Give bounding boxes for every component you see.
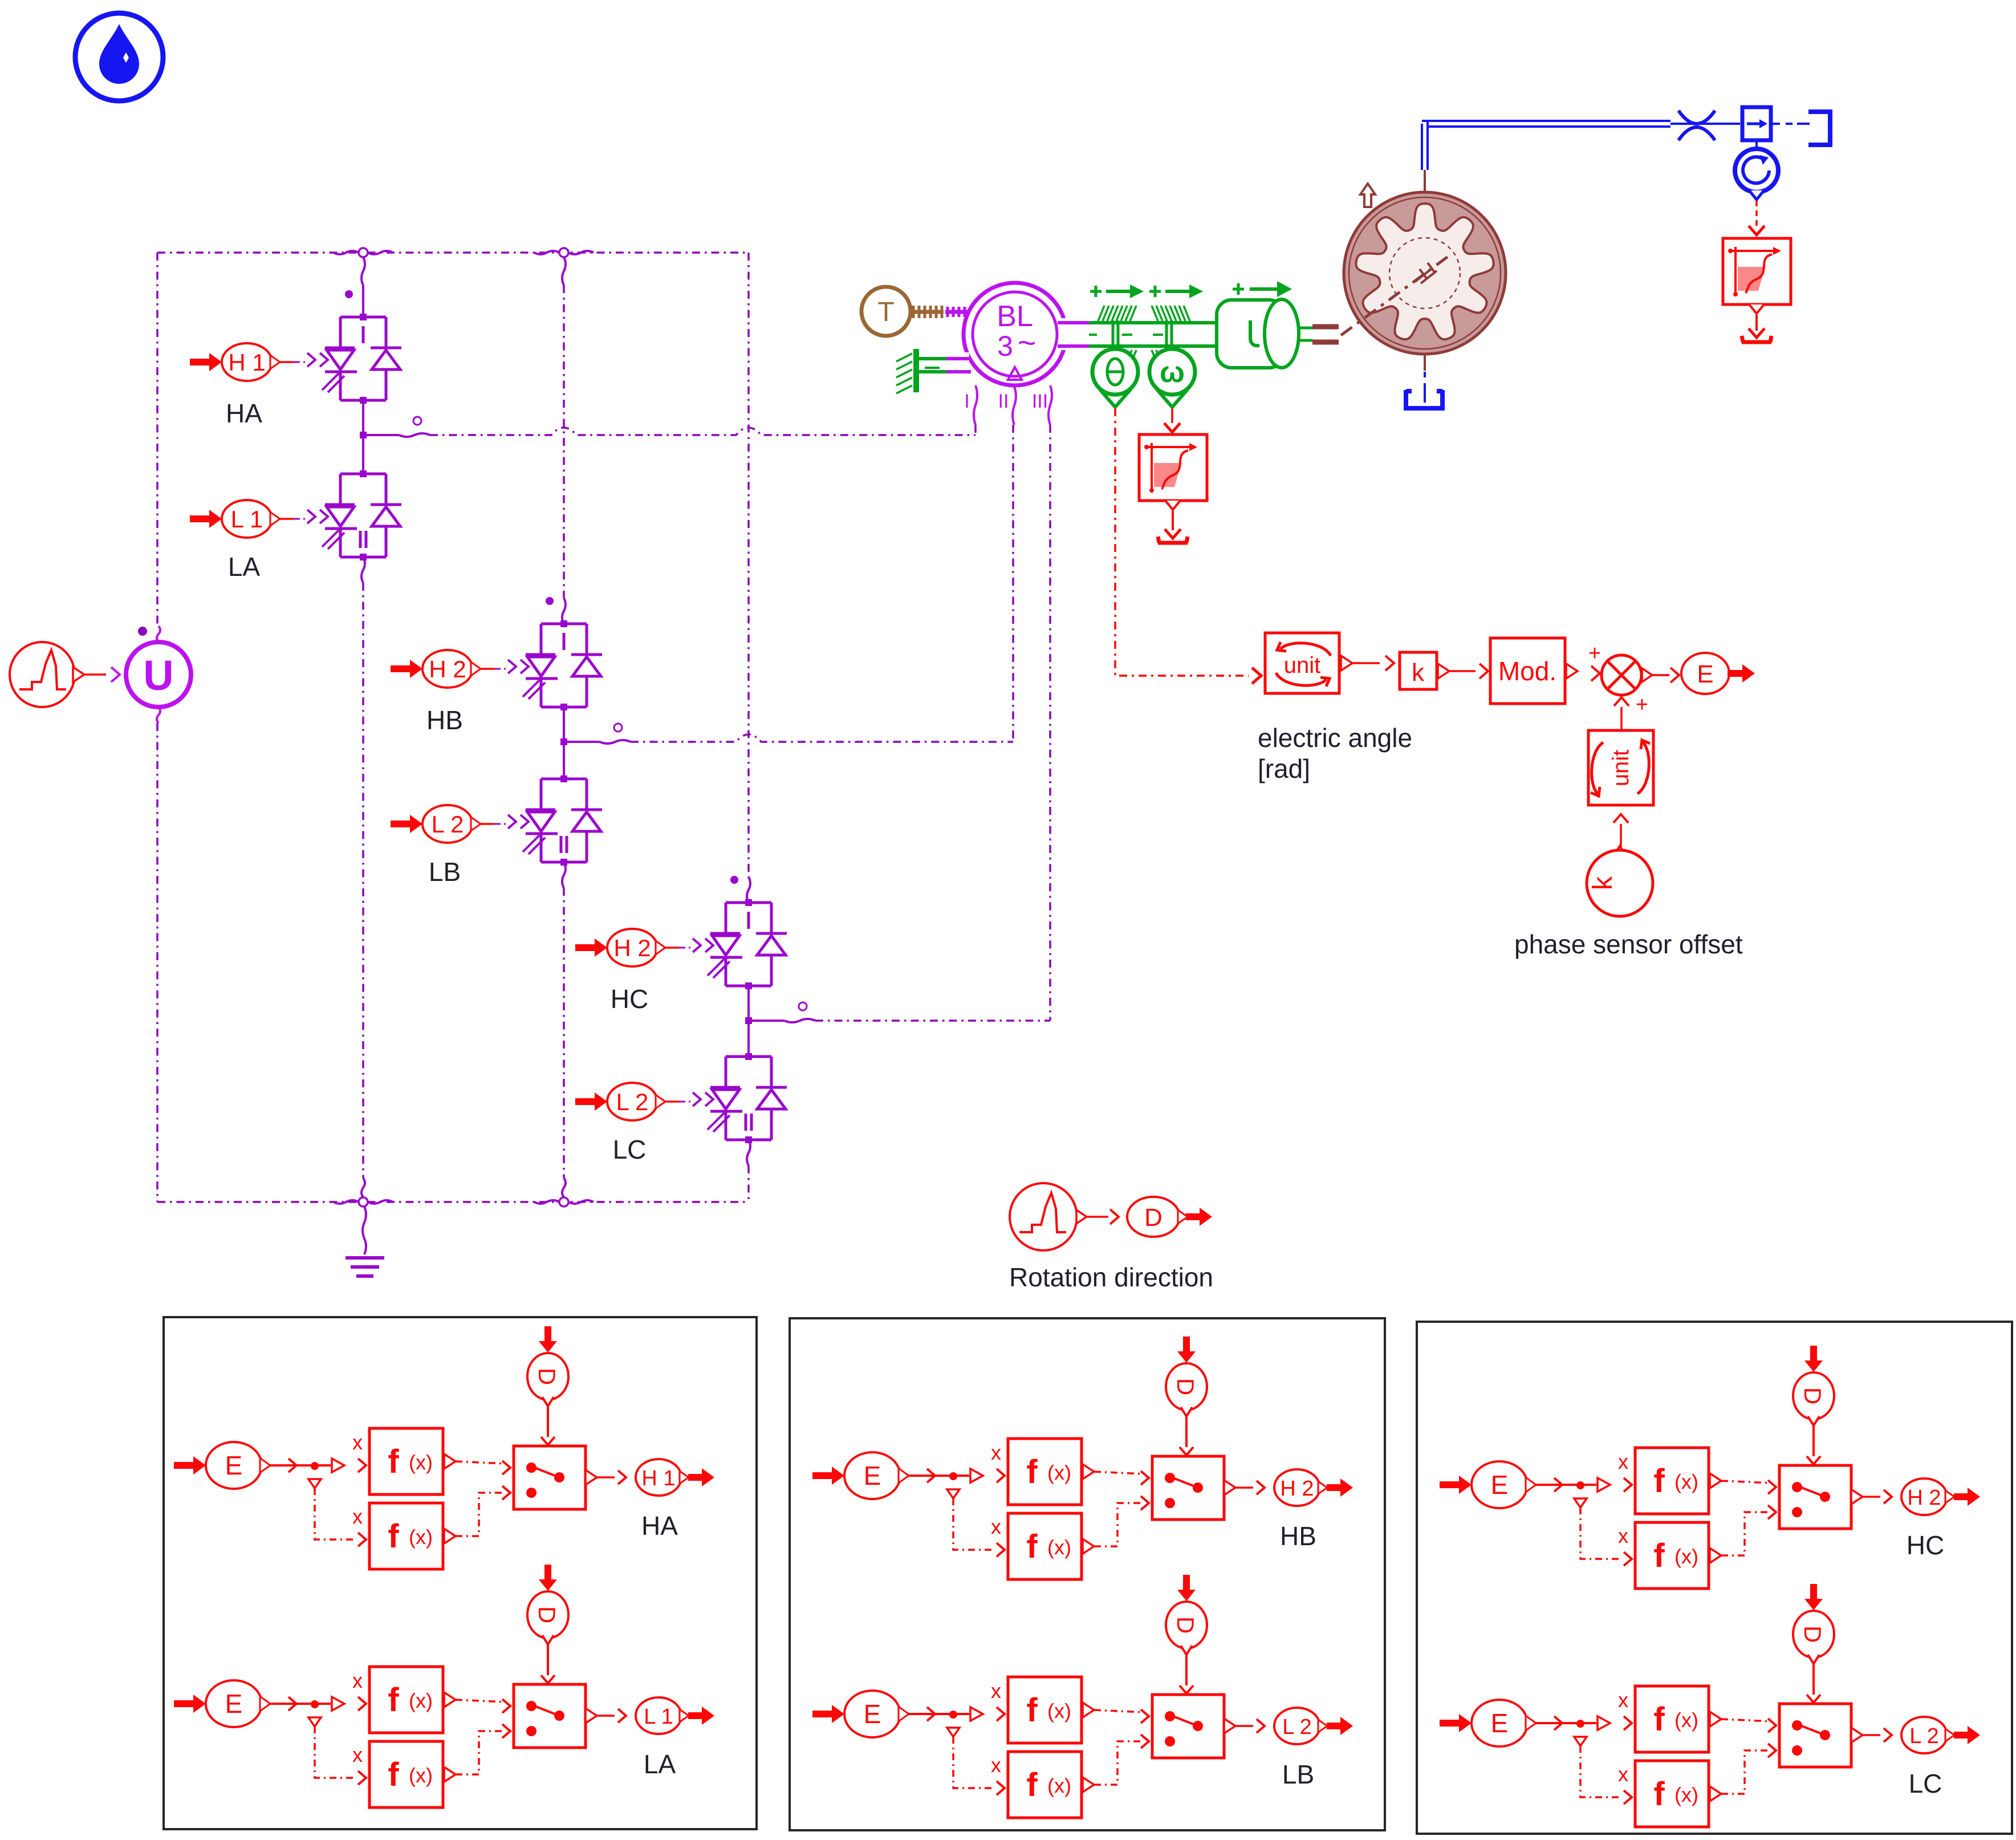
svg-text:HC: HC bbox=[611, 984, 648, 1014]
svg-text:x: x bbox=[991, 1753, 1001, 1777]
IGBT half-bridge LA bbox=[322, 470, 401, 560]
svg-text:H 2: H 2 bbox=[1280, 1477, 1314, 1501]
wire node to LB bbox=[563, 742, 565, 779]
phase B top connector bbox=[559, 248, 568, 257]
svg-text:x: x bbox=[1618, 1524, 1628, 1547]
svg-text:H 1: H 1 bbox=[641, 1467, 675, 1490]
phase node junction B bbox=[560, 738, 567, 745]
svg-text:x: x bbox=[1618, 1688, 1628, 1712]
oval E (HB) bbox=[844, 1452, 900, 1499]
svg-text:HB: HB bbox=[1280, 1521, 1316, 1551]
svg-text:f: f bbox=[1653, 1776, 1665, 1813]
svg-text:x: x bbox=[352, 1743, 363, 1766]
wire E to branch (LA) bbox=[270, 1703, 315, 1705]
bottom bus connector A bbox=[359, 1197, 368, 1207]
IGBT half-bridge LC bbox=[708, 1053, 787, 1143]
omega sensor wire bbox=[1171, 408, 1173, 423]
motor pin wire A bbox=[974, 425, 977, 435]
wire fx1 to switch (LB) bbox=[1094, 1710, 1145, 1712]
svg-text:(x): (x) bbox=[1047, 1774, 1071, 1797]
phase A bottom wire bbox=[361, 557, 365, 583]
direction oval D bbox=[1127, 1197, 1180, 1237]
node circle B bbox=[614, 724, 622, 732]
phase B bottom wire bbox=[562, 862, 566, 888]
pipe to orifice bbox=[1670, 123, 1740, 125]
input arrow LB bbox=[812, 1705, 844, 1723]
control input oval H 2 bbox=[575, 939, 607, 957]
function block f(x) lower (HA) bbox=[369, 1503, 443, 1569]
svg-text:D: D bbox=[534, 1606, 560, 1623]
pump center mark bbox=[1415, 263, 1437, 283]
svg-text:II: II bbox=[998, 391, 1009, 412]
svg-text:H 2: H 2 bbox=[613, 935, 651, 961]
meter signal to scope bbox=[1755, 201, 1758, 227]
voltage source U bbox=[126, 642, 191, 707]
wire fx1 to switch (LA) bbox=[456, 1700, 506, 1702]
motor output shaft (purple) bbox=[1058, 321, 1089, 324]
svg-text:L 2: L 2 bbox=[616, 1088, 649, 1115]
tank below pump bbox=[1424, 372, 1426, 403]
motor pin wire B bbox=[1012, 425, 1014, 742]
wire fx2 to switch (HB) bbox=[1094, 1503, 1140, 1546]
svg-text:D: D bbox=[1799, 1387, 1826, 1404]
wire adder to E bbox=[1652, 674, 1669, 676]
switch block (LC) bbox=[1779, 1704, 1851, 1767]
svg-text:(x): (x) bbox=[409, 1525, 433, 1549]
coupling 1 bbox=[1098, 306, 1136, 365]
function block f(x) upper (HB) bbox=[1008, 1439, 1082, 1505]
svg-text:x: x bbox=[991, 1515, 1001, 1538]
BLDC motor BL 3~ bbox=[964, 283, 1066, 385]
switch block (HC) bbox=[1779, 1465, 1851, 1529]
wire fx1 to switch (HB) bbox=[1094, 1472, 1145, 1474]
svg-text:+: + bbox=[1636, 693, 1648, 717]
svg-text:+: + bbox=[1588, 641, 1601, 665]
function block f(x) upper (HA) bbox=[369, 1428, 443, 1494]
pump shaft axis line bbox=[1341, 254, 1451, 335]
subsystem frame HA/LA bbox=[164, 1317, 757, 1829]
wire fx1 to switch (HC) bbox=[1721, 1481, 1772, 1483]
wire switch to L 2 (LC) bbox=[1863, 1734, 1880, 1736]
angle sensor theta bbox=[1100, 389, 1131, 407]
svg-text:x: x bbox=[352, 1431, 363, 1454]
input arrow HB bbox=[812, 1467, 844, 1485]
svg-text:L 1: L 1 bbox=[644, 1705, 673, 1729]
svg-text:(x): (x) bbox=[409, 1764, 433, 1787]
bottom bus connector B bbox=[559, 1197, 568, 1207]
svg-text:HC: HC bbox=[1907, 1530, 1944, 1560]
oval E (LC) bbox=[1472, 1700, 1527, 1746]
svg-text:LA: LA bbox=[228, 552, 261, 582]
svg-text:[rad]: [rad] bbox=[1258, 754, 1310, 783]
branch to fx2 (LB) bbox=[947, 1728, 960, 1737]
pump top port stub bbox=[1424, 170, 1426, 194]
svg-text:phase sensor offset: phase sensor offset bbox=[1514, 929, 1743, 959]
control input oval H 1 bbox=[190, 353, 222, 371]
branch to fx2 (LA) bbox=[308, 1717, 321, 1727]
svg-text:(x): (x) bbox=[1047, 1536, 1071, 1559]
pump rotation arrow bbox=[1360, 184, 1375, 207]
unit converter block 1 bbox=[1265, 633, 1339, 693]
gain block k bbox=[1400, 652, 1437, 689]
svg-text:(x): (x) bbox=[1047, 1699, 1071, 1723]
wire fx1 to switch (HA) bbox=[456, 1461, 506, 1464]
svg-text:(x): (x) bbox=[1674, 1470, 1698, 1493]
svg-text:HA: HA bbox=[226, 399, 262, 428]
phase C bottom wire bbox=[747, 1140, 750, 1165]
signal generator source (left) bbox=[10, 642, 75, 707]
pump rotor bbox=[1356, 204, 1493, 339]
gate wire H 2 to HC bbox=[659, 947, 679, 949]
output oval H 2 (HB) bbox=[1274, 1469, 1320, 1506]
speed sign arrow 2 bbox=[1149, 286, 1161, 297]
DC bus right feeder (phase C) bbox=[747, 253, 750, 878]
D parameter balloon (HC) bbox=[1804, 1346, 1823, 1372]
function block f(x) lower (HB) bbox=[1008, 1513, 1082, 1579]
input arrow HC bbox=[1440, 1476, 1472, 1494]
svg-text:HA: HA bbox=[641, 1511, 678, 1541]
svg-text:x: x bbox=[352, 1505, 363, 1528]
rotation direction source bbox=[1010, 1183, 1077, 1250]
oval E (LA) bbox=[206, 1680, 262, 1727]
svg-text:f: f bbox=[1026, 1692, 1038, 1729]
branch to fx2 (LC) bbox=[1574, 1737, 1587, 1746]
svg-text:f: f bbox=[388, 1518, 399, 1555]
svg-text:f: f bbox=[388, 1443, 399, 1480]
svg-text:I: I bbox=[964, 391, 969, 412]
wire k circle to unit 2 bbox=[1613, 814, 1628, 823]
pump pitch circle bbox=[1389, 238, 1460, 308]
phase node junction C bbox=[745, 1017, 752, 1024]
svg-text:x: x bbox=[1618, 1450, 1628, 1473]
node dot at U plus terminal bbox=[138, 627, 147, 636]
svg-text:Rotation direction: Rotation direction bbox=[1009, 1262, 1213, 1292]
switch block (HB) bbox=[1152, 1456, 1224, 1520]
svg-text:~: ~ bbox=[1018, 324, 1037, 360]
output oval L 2 (LC) bbox=[1901, 1717, 1947, 1753]
function block f(x) upper (LC) bbox=[1635, 1686, 1709, 1752]
gate wire L 2 to LB bbox=[474, 823, 494, 825]
svg-text:f: f bbox=[1026, 1528, 1038, 1565]
svg-text:LC: LC bbox=[613, 1135, 647, 1164]
svg-text:L 2: L 2 bbox=[1282, 1715, 1311, 1739]
svg-text:L 1: L 1 bbox=[231, 506, 263, 533]
svg-text:f: f bbox=[388, 1756, 399, 1793]
output oval E bbox=[1681, 653, 1729, 694]
gate wire H 1 to HA bbox=[273, 361, 294, 363]
wire fx2 to switch (LC) bbox=[1721, 1750, 1767, 1794]
coupling 2 bbox=[1152, 306, 1190, 365]
T output shaft (brown ribbed) bbox=[911, 310, 944, 314]
gate wire H 2 to HB bbox=[474, 668, 494, 670]
motor input shaft (purple ribbed) bbox=[945, 310, 968, 314]
svg-text:E: E bbox=[225, 1689, 243, 1719]
motor mount (green support) bbox=[913, 349, 919, 392]
wire node to LC bbox=[747, 1021, 750, 1057]
wire HB to phase node bbox=[563, 707, 565, 742]
logo sparkle bbox=[123, 52, 129, 63]
function block f(x) lower (HC) bbox=[1635, 1522, 1709, 1589]
adder (multiplier circle) bbox=[1602, 655, 1641, 695]
mount link lines bbox=[919, 357, 946, 360]
phase node junction A bbox=[360, 432, 367, 438]
node dot above HA bbox=[345, 290, 353, 298]
wire fx2 to switch (LA) bbox=[456, 1731, 502, 1774]
phase A top connector bbox=[359, 248, 368, 257]
svg-text:ω: ω bbox=[1160, 356, 1185, 389]
wire fx1 to switch (LC) bbox=[1721, 1719, 1772, 1721]
logo water drop bbox=[99, 24, 139, 84]
svg-text:f: f bbox=[1653, 1701, 1665, 1738]
svg-text:E: E bbox=[1697, 660, 1713, 688]
control input oval L 1 bbox=[190, 510, 222, 528]
pipe to tank bbox=[1771, 123, 1810, 125]
svg-text:LC: LC bbox=[1909, 1769, 1942, 1798]
branch to fx2 (HC) bbox=[1574, 1498, 1587, 1508]
gate wire L 2 to LC bbox=[659, 1100, 679, 1103]
orifice bbox=[1678, 111, 1715, 140]
wire switch to H 2 (HC) bbox=[1863, 1496, 1880, 1498]
output oval H 2 (HC) bbox=[1901, 1479, 1947, 1515]
wire node to LA bbox=[362, 435, 364, 474]
svg-text:T: T bbox=[877, 297, 894, 327]
output oval H 1 (HA) bbox=[636, 1459, 681, 1496]
gerotor pump housing bbox=[1344, 192, 1506, 354]
svg-text:LA: LA bbox=[644, 1749, 676, 1779]
wire E to branch (HB) bbox=[909, 1475, 953, 1477]
IGBT half-bridge HB bbox=[523, 620, 602, 710]
function block f(x) lower (LA) bbox=[369, 1741, 443, 1807]
svg-text:L 2: L 2 bbox=[1909, 1724, 1938, 1748]
phase C feeder wire bbox=[747, 877, 750, 903]
branch to fx2 (HB) bbox=[947, 1489, 960, 1498]
D parameter balloon (HA) bbox=[539, 1326, 557, 1352]
svg-text:f: f bbox=[1026, 1766, 1038, 1804]
logo circle bbox=[75, 13, 163, 101]
rotary inertia J bbox=[1217, 300, 1284, 368]
svg-text:U: U bbox=[143, 652, 173, 699]
DC bus top wire bbox=[157, 251, 749, 254]
svg-text:x: x bbox=[991, 1441, 1001, 1464]
wire HC to phase node bbox=[747, 986, 750, 1021]
ground symbol bbox=[363, 1207, 366, 1254]
wire switch to L 1 (LA) bbox=[597, 1715, 615, 1717]
wire fx2 to switch (LB) bbox=[1094, 1741, 1140, 1785]
IGBT half-bridge LB bbox=[523, 775, 602, 866]
scope block (flow) bbox=[1723, 238, 1791, 304]
wire unit to k bbox=[1352, 662, 1380, 664]
D parameter balloon (LB) bbox=[1177, 1575, 1196, 1601]
flow source block bbox=[1742, 107, 1771, 140]
node dot above HB bbox=[546, 597, 554, 605]
svg-text:x: x bbox=[1618, 1762, 1628, 1786]
wire HA to phase node bbox=[362, 400, 364, 435]
wire fx2 to switch (HC) bbox=[1721, 1512, 1767, 1555]
output oval L 2 (LB) bbox=[1274, 1708, 1320, 1744]
svg-text:HB: HB bbox=[426, 705, 463, 735]
svg-text:(x): (x) bbox=[1047, 1461, 1071, 1484]
offset constant k bbox=[1613, 846, 1626, 855]
svg-text:k: k bbox=[1412, 659, 1425, 687]
wire to U source bbox=[84, 673, 106, 676]
function block f(x) upper (LA) bbox=[369, 1667, 443, 1733]
switch block (HA) bbox=[514, 1446, 586, 1509]
input arrow LC bbox=[1440, 1714, 1472, 1732]
switch block (LA) bbox=[514, 1684, 586, 1748]
U top pin bbox=[157, 626, 160, 642]
svg-text:(x): (x) bbox=[1674, 1545, 1698, 1568]
svg-text:H 2: H 2 bbox=[1907, 1486, 1941, 1510]
DC bus left wire (lower) bbox=[156, 723, 158, 1202]
svg-text:E: E bbox=[225, 1451, 243, 1480]
U bottom pin bbox=[157, 707, 160, 723]
speed sign arrow 3 bbox=[1233, 283, 1244, 295]
svg-text:H 1: H 1 bbox=[228, 349, 265, 376]
wire switch to H 1 (HA) bbox=[597, 1476, 615, 1479]
oval E (HA) bbox=[206, 1442, 262, 1489]
wire E to branch (HA) bbox=[270, 1464, 315, 1467]
svg-text:x: x bbox=[352, 1669, 363, 1692]
svg-text:x: x bbox=[991, 1679, 1001, 1703]
svg-text:LB: LB bbox=[429, 857, 461, 887]
function block f(x) upper (LB) bbox=[1008, 1677, 1082, 1743]
wire switch to L 2 (LB) bbox=[1235, 1725, 1253, 1727]
output oval L 1 (LA) bbox=[636, 1697, 681, 1734]
svg-text:f: f bbox=[1653, 1463, 1665, 1500]
oval E (HC) bbox=[1472, 1461, 1527, 1508]
D parameter balloon (LA) bbox=[539, 1565, 557, 1591]
svg-text:(x): (x) bbox=[409, 1451, 433, 1474]
svg-text:III: III bbox=[1032, 391, 1048, 412]
flow meter bbox=[1755, 140, 1758, 149]
modulo block Mod. bbox=[1490, 638, 1565, 704]
drive shaft (green) bbox=[1089, 321, 1217, 324]
IGBT half-bridge HA bbox=[322, 314, 401, 404]
D parameter balloon (HB) bbox=[1177, 1337, 1196, 1363]
function block f(x) lower (LB) bbox=[1008, 1752, 1082, 1818]
svg-text:unit: unit bbox=[1284, 653, 1321, 678]
gate wire L 1 to LA bbox=[273, 518, 294, 520]
node dot above HC bbox=[730, 876, 738, 884]
svg-text:Mod.: Mod. bbox=[1498, 656, 1556, 686]
svg-text:(x): (x) bbox=[1674, 1783, 1698, 1806]
svg-text:E: E bbox=[1491, 1708, 1509, 1738]
svg-text:D: D bbox=[1172, 1378, 1199, 1395]
subsystem frame HC/LC bbox=[1417, 1322, 2012, 1834]
control input oval L 2 bbox=[575, 1092, 607, 1111]
svg-text:(x): (x) bbox=[409, 1689, 433, 1712]
torque source T bbox=[861, 287, 911, 336]
speed sensor omega bbox=[1157, 389, 1188, 407]
branch to fx2 (HA) bbox=[308, 1479, 321, 1488]
pressure pipe (double line) bbox=[1422, 121, 1670, 170]
DC bus bottom wire bbox=[157, 1201, 749, 1203]
svg-text:3: 3 bbox=[997, 330, 1013, 362]
wire E to branch (LC) bbox=[1536, 1722, 1580, 1724]
scope block (speed) bbox=[1139, 434, 1207, 501]
svg-text:k: k bbox=[1588, 876, 1618, 890]
inertia output stub bbox=[1299, 327, 1312, 330]
svg-text:(x): (x) bbox=[1674, 1708, 1698, 1732]
wire k to Mod bbox=[1449, 670, 1476, 672]
svg-text:E: E bbox=[1491, 1470, 1509, 1500]
input arrow HA bbox=[174, 1456, 206, 1475]
svg-text:D: D bbox=[1144, 1204, 1163, 1232]
svg-text:f: f bbox=[1026, 1453, 1038, 1490]
wire Mod to adder bbox=[1591, 666, 1600, 681]
pump shaft coupling (dark red) bbox=[1312, 324, 1339, 330]
svg-text:L 2: L 2 bbox=[432, 811, 464, 838]
motor pin wire C bbox=[1049, 425, 1051, 1021]
control input oval L 2 bbox=[391, 815, 422, 833]
node circle A bbox=[413, 417, 421, 425]
IGBT half-bridge HC bbox=[708, 899, 787, 989]
svg-text:D: D bbox=[1799, 1626, 1826, 1643]
wire switch to H 2 (HB) bbox=[1235, 1486, 1253, 1489]
function block f(x) upper (HC) bbox=[1635, 1448, 1709, 1514]
theta sensor signal wire bbox=[1115, 408, 1249, 676]
D parameter balloon (LC) bbox=[1804, 1584, 1823, 1610]
svg-text:LB: LB bbox=[1282, 1760, 1314, 1789]
tank (right) bbox=[1808, 112, 1830, 145]
svg-text:f: f bbox=[388, 1681, 399, 1719]
svg-text:D: D bbox=[1172, 1616, 1199, 1634]
DC bus left wire (upper) bbox=[156, 253, 158, 626]
node circle C bbox=[799, 1002, 807, 1010]
wire E to branch (LB) bbox=[909, 1713, 953, 1715]
wire fx2 to switch (HA) bbox=[456, 1493, 502, 1536]
input arrow LA bbox=[174, 1695, 206, 1713]
pump bottom port stub bbox=[1424, 353, 1426, 371]
phase C output wire to motor bbox=[749, 1019, 785, 1022]
svg-text:f: f bbox=[1653, 1537, 1665, 1574]
switch block (LB) bbox=[1152, 1695, 1224, 1758]
phase B output wire to motor bbox=[564, 741, 600, 743]
phase B feeder wire bbox=[563, 285, 565, 598]
svg-text:unit: unit bbox=[1608, 750, 1633, 787]
function block f(x) lower (LC) bbox=[1635, 1761, 1709, 1827]
svg-text:E: E bbox=[864, 1699, 881, 1729]
svg-text:D: D bbox=[534, 1368, 560, 1385]
control input oval H 2 bbox=[391, 660, 422, 678]
oval E (LB) bbox=[844, 1691, 900, 1737]
svg-text:electric angle: electric angle bbox=[1258, 723, 1412, 753]
wire E to branch (HC) bbox=[1536, 1484, 1580, 1486]
unit converter block 2 bbox=[1588, 730, 1653, 805]
phase A output wire to motor bbox=[363, 434, 399, 436]
speed sign arrow 1 bbox=[1090, 286, 1102, 297]
phase A feeder wire bbox=[362, 285, 364, 317]
svg-text:H 2: H 2 bbox=[429, 656, 466, 683]
svg-text:E: E bbox=[864, 1461, 881, 1490]
subsystem frame HB/LB bbox=[790, 1318, 1385, 1830]
